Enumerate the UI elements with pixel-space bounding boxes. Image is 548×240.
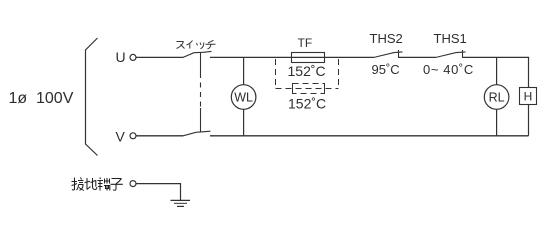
wire RL bottom <box>496 109 498 136</box>
terminal V circle <box>130 133 136 139</box>
terminal V label <box>116 129 126 145</box>
wire U terminal to switch pivot <box>136 56 183 58</box>
value 152C upper <box>288 63 326 79</box>
ground terminal circle <box>130 181 136 187</box>
thermostat THS1 contact <box>436 50 466 58</box>
thermal fuse TF label <box>298 36 313 50</box>
svg-text:U: U <box>116 49 126 65</box>
svg-text:H: H <box>524 90 533 104</box>
svg-text:0~ 40˚C: 0~ 40˚C <box>423 62 474 77</box>
node RL top junction wire <box>496 57 498 84</box>
value 152C lower <box>288 96 326 112</box>
value 0~40C <box>423 62 474 77</box>
svg-text:V: V <box>116 129 126 145</box>
wire THS2 to THS1 pivot <box>399 56 437 58</box>
source bracket <box>86 38 98 156</box>
svg-text:152˚C: 152˚C <box>288 96 326 112</box>
svg-text:TF: TF <box>298 36 313 50</box>
ground terminal label 接地端子 (kanji drawn as paths) <box>72 178 123 191</box>
svg-text:WL: WL <box>234 90 253 104</box>
svg-text:RL: RL <box>489 90 505 104</box>
wire ground terminal to earth <box>136 184 181 201</box>
wire WL bottom <box>243 109 245 136</box>
thermal fuse TF body <box>292 53 325 63</box>
dashed alternate fuse wire <box>276 88 339 90</box>
dashed thermal fuse body <box>293 84 325 94</box>
thermostat THS2 label <box>370 31 403 46</box>
thermostat THS1 label <box>434 31 467 46</box>
svg-text:100V: 100V <box>36 90 74 107</box>
top wire THS1 to corner <box>463 56 530 58</box>
top wire switch to THS2 pivot <box>210 56 374 58</box>
dashed alternate fuse box left side <box>275 59 277 89</box>
label 1ø 100V <box>9 90 74 107</box>
dashed alternate fuse box right side <box>338 59 340 89</box>
wire corner down to heater <box>528 57 530 87</box>
thermostat THS2 contact <box>374 50 403 58</box>
terminal U label <box>116 49 126 65</box>
switch linkage (dashed mechanical tie) <box>200 53 202 132</box>
svg-text:1ø: 1ø <box>9 90 28 107</box>
value 95C <box>372 62 400 77</box>
svg-text:95˚C: 95˚C <box>372 62 400 77</box>
heater H <box>520 88 537 105</box>
wire V terminal to switch pivot <box>136 135 183 137</box>
node WL top junction wire <box>243 57 245 84</box>
bottom wire <box>210 135 529 137</box>
terminal U circle <box>130 54 136 60</box>
switch V-pole blade <box>183 131 211 136</box>
lamp WL <box>231 85 256 110</box>
ground symbol <box>171 200 191 206</box>
svg-text:152˚C: 152˚C <box>288 63 326 79</box>
svg-text:THS1: THS1 <box>434 31 467 46</box>
switch label スイッチ (katakana drawn as paths) <box>177 40 216 49</box>
switch U-pole blade <box>183 51 212 57</box>
svg-text:THS2: THS2 <box>370 31 403 46</box>
lamp RL <box>484 85 509 110</box>
wire heater bottom <box>528 105 530 136</box>
